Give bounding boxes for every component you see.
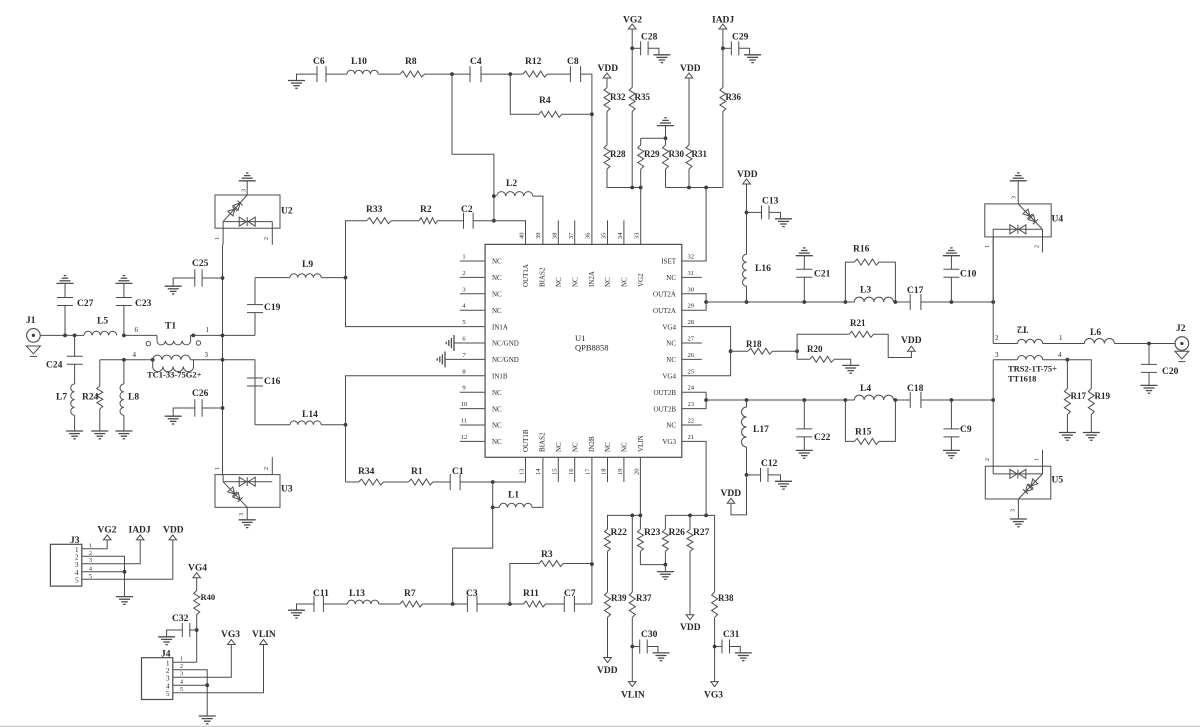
node bar2-R31 — [687, 186, 691, 190]
U5 bowtie diode — [993, 466, 1042, 474]
node C28 junction — [630, 46, 634, 50]
svg-text:J1: J1 — [26, 316, 36, 326]
svg-text:4: 4 — [1058, 351, 1062, 359]
power VDD flag J3 — [169, 535, 177, 540]
node C1-right junction — [491, 480, 495, 484]
svg-text:4: 4 — [133, 351, 137, 359]
J2 arrow — [1175, 351, 1189, 359]
svg-text:R18: R18 — [746, 339, 762, 349]
wire vertical rail U2-U3 — [222, 245, 224, 475]
svg-text:R28: R28 — [610, 149, 626, 159]
svg-text:VG3: VG3 — [662, 438, 676, 446]
IC U1 body — [485, 244, 682, 457]
TVS diode U2 box — [215, 195, 280, 228]
svg-text:32: 32 — [688, 254, 695, 261]
svg-text:R35: R35 — [635, 92, 651, 102]
wire IN1B to pin 8 — [346, 376, 486, 425]
node C27 junction — [63, 334, 67, 338]
resistor R38 — [712, 592, 718, 617]
wire VG3 pin 21 — [682, 441, 706, 515]
svg-text:J2: J2 — [1176, 324, 1186, 334]
svg-text:C28: C28 — [641, 33, 658, 43]
svg-text:11: 11 — [461, 418, 467, 425]
wire — [378, 73, 400, 75]
U5 pin 3 ground — [1017, 499, 1019, 519]
wire R39 to VDD arrow — [607, 617, 609, 657]
svg-text:C11: C11 — [313, 589, 329, 599]
U5 diagonal diodes — [1016, 471, 1045, 501]
resistor R17 — [1066, 360, 1068, 389]
inductor L5 — [84, 331, 117, 335]
svg-text:37: 37 — [568, 232, 575, 239]
wire bias bar2 — [665, 515, 714, 529]
svg-text:L4: L4 — [860, 384, 871, 394]
J1 arrow — [26, 346, 40, 354]
capacitor C16 — [254, 360, 256, 386]
resistor R29 — [640, 138, 642, 145]
svg-text:C29: C29 — [732, 33, 749, 43]
power IADJ flag J3 — [136, 535, 144, 540]
svg-text:T2: T2 — [1017, 324, 1028, 334]
svg-text:R26: R26 — [669, 528, 686, 538]
resistor R20 — [797, 351, 810, 359]
node rail-C26 — [221, 406, 225, 410]
wire J3-3 to IADJ — [82, 540, 140, 564]
node bar2-ISET — [704, 186, 708, 190]
svg-text:C2: C2 — [461, 205, 473, 215]
node L4-left junction — [844, 398, 848, 402]
svg-text:R19: R19 — [1095, 391, 1111, 401]
svg-text:IN1B: IN1B — [492, 373, 508, 381]
connector J4 body — [142, 658, 173, 700]
capacitor C2 — [463, 213, 465, 229]
node R4-right junction — [590, 112, 594, 116]
svg-text:C7: C7 — [564, 589, 576, 599]
svg-text:R34: R34 — [358, 467, 375, 477]
svg-text:13: 13 — [519, 469, 526, 476]
resistor R27 — [689, 515, 691, 529]
svg-text:21: 21 — [688, 434, 695, 441]
wire C4-node down to L2 — [452, 74, 494, 221]
svg-text:15: 15 — [552, 469, 559, 476]
svg-text:R40: R40 — [201, 592, 216, 602]
svg-text:27: 27 — [688, 336, 695, 343]
svg-text:NC: NC — [492, 422, 502, 430]
node VG4 merge — [729, 349, 733, 353]
node L3-right junction — [894, 300, 898, 304]
svg-text:NC: NC — [571, 442, 579, 452]
capacitor C30 — [632, 646, 639, 648]
wire J3-5 to VDD — [82, 540, 173, 579]
wire OUT2B bracket — [682, 392, 706, 408]
capacitor C20 — [1148, 344, 1150, 365]
svg-text:1: 1 — [462, 254, 465, 261]
capacitor C7 — [563, 596, 565, 612]
svg-text:L6: L6 — [1090, 328, 1101, 338]
svg-text:R27: R27 — [693, 528, 710, 538]
wire — [346, 481, 359, 483]
power VG2 flag J3 — [103, 535, 111, 540]
svg-text:R1: R1 — [411, 467, 423, 477]
svg-text:L3: L3 — [860, 286, 871, 296]
U3 diagonal diodes — [221, 479, 250, 509]
svg-text:T1: T1 — [165, 322, 176, 332]
svg-text:NC: NC — [492, 389, 502, 397]
svg-text:C9: C9 — [960, 425, 972, 435]
svg-text:C8: C8 — [567, 57, 579, 67]
inductor L16 — [746, 286, 748, 302]
connector J2 — [1175, 337, 1189, 351]
T1 lower loop winding — [152, 360, 154, 367]
node OUT2B merge — [704, 398, 708, 402]
node T1 pin4 — [151, 358, 155, 362]
node bar1-R35 — [630, 186, 634, 190]
svg-text:VDD: VDD — [721, 489, 742, 499]
wire IN1A to pin 5 — [346, 278, 486, 327]
svg-text:C20: C20 — [1162, 367, 1179, 377]
svg-text:VLIN: VLIN — [637, 435, 645, 452]
svg-text:20: 20 — [634, 469, 641, 476]
svg-text:ISET: ISET — [661, 258, 677, 266]
wire — [895, 399, 910, 401]
inductor L4 — [845, 399, 854, 401]
svg-text:L8: L8 — [128, 393, 139, 403]
inductor L10 — [347, 70, 378, 74]
resistor R37 rail — [631, 515, 633, 592]
U3 bowtie diode — [223, 481, 272, 483]
node L3-left junction — [844, 300, 848, 304]
resistor R4 — [510, 74, 538, 114]
svg-text:1: 1 — [215, 467, 221, 470]
svg-text:14: 14 — [535, 468, 542, 475]
node rail-pin1wire — [221, 334, 225, 338]
svg-text:3: 3 — [75, 561, 79, 569]
svg-text:IN2A: IN2A — [588, 271, 596, 287]
wire pin4 line — [100, 359, 153, 361]
wire — [481, 73, 523, 75]
wire pin1 to C19 — [193, 334, 255, 336]
wire VLIN pin 20 down — [639, 457, 641, 529]
node C10 junction — [950, 300, 954, 304]
capacitor C6 — [316, 66, 318, 82]
node T2 pin3 riser — [991, 398, 995, 402]
svg-text:L16: L16 — [755, 264, 771, 274]
svg-text:24: 24 — [688, 385, 695, 392]
node C3-left junction — [451, 602, 455, 606]
svg-text:35: 35 — [601, 233, 608, 240]
wire C2 node to OUT1A pin 40 — [494, 221, 526, 245]
svg-text:31: 31 — [688, 270, 695, 277]
svg-text:NC/GND: NC/GND — [492, 340, 519, 348]
svg-text:VDD: VDD — [680, 623, 701, 633]
svg-text:6: 6 — [135, 326, 139, 334]
svg-text:36: 36 — [584, 232, 591, 239]
capacitor C27 — [64, 306, 66, 336]
svg-text:NC: NC — [604, 277, 612, 287]
capacitor C8 — [569, 66, 571, 82]
svg-text:OUT2B: OUT2B — [653, 405, 676, 413]
wire — [473, 220, 494, 222]
inductor L14 — [255, 424, 290, 426]
U3 pin 1 wire — [222, 475, 224, 482]
svg-text:VDD: VDD — [901, 336, 922, 346]
U2 pin 1 wire — [222, 222, 224, 245]
svg-text:VG2: VG2 — [98, 526, 117, 536]
wire C7 to IN2B line — [574, 603, 592, 605]
node bar2-R27 — [688, 514, 692, 518]
svg-text:NC: NC — [666, 340, 676, 348]
wire J3-1 to VG2 — [82, 540, 107, 549]
connector J3 body — [50, 544, 81, 586]
wire — [423, 603, 468, 605]
wire down to L1 — [492, 482, 494, 507]
svg-text:VLIN: VLIN — [621, 691, 645, 701]
svg-text:R38: R38 — [718, 593, 734, 603]
svg-text:1: 1 — [1059, 334, 1063, 342]
svg-text:C3: C3 — [466, 589, 478, 599]
svg-text:5: 5 — [75, 577, 79, 585]
svg-text:IN1A: IN1A — [492, 323, 508, 331]
capacitor C21 — [803, 277, 805, 302]
node R11-left junction — [508, 602, 512, 606]
wire ISET riser — [682, 188, 706, 262]
wire R32-R28 — [606, 112, 608, 146]
capacitor C12 — [747, 474, 761, 476]
node C22 junction — [802, 398, 806, 402]
node C29 junction — [721, 46, 725, 50]
svg-text:VG4: VG4 — [662, 323, 676, 331]
svg-text:2: 2 — [462, 270, 465, 277]
svg-text:VDD: VDD — [680, 64, 701, 74]
svg-text:R31: R31 — [692, 149, 708, 159]
svg-text:C16: C16 — [264, 377, 281, 387]
U5 pin 1 stub — [1042, 450, 1044, 474]
wire R28 to bar — [607, 169, 641, 187]
node C21 junction — [802, 300, 806, 304]
node T2 pin4 — [1066, 358, 1070, 362]
wire to J2 — [1114, 343, 1175, 345]
U2 bowtie diode — [223, 221, 272, 223]
svg-text:R8: R8 — [405, 57, 417, 67]
node IN1A junction — [344, 276, 348, 280]
svg-text:NC: NC — [666, 274, 676, 282]
capacitor C9 — [950, 400, 952, 429]
wire VG2 bar to pin 33 — [640, 188, 642, 245]
resistor R30 — [665, 138, 667, 145]
wire R38 down — [714, 617, 716, 681]
svg-text:IN2B: IN2B — [588, 436, 596, 452]
node OUT2A merge — [704, 300, 708, 304]
svg-text:26: 26 — [688, 352, 695, 359]
svg-text:VG2: VG2 — [637, 273, 645, 287]
svg-text:OUT2A: OUT2A — [653, 291, 676, 299]
svg-text:VG3: VG3 — [221, 630, 240, 640]
resistor R21 — [797, 334, 849, 351]
power VDD down-arrow mid — [686, 615, 694, 620]
capacitor C22 — [803, 400, 805, 429]
svg-text:C31: C31 — [723, 630, 740, 640]
wire bar2 right to R38 — [714, 529, 716, 592]
node R29/R30 top junction — [664, 136, 668, 140]
svg-text:R16: R16 — [853, 245, 870, 255]
svg-text:NC: NC — [621, 442, 629, 452]
node C24 junction — [73, 334, 77, 338]
node J3 ground junction — [123, 570, 127, 574]
inductor L1 — [493, 506, 500, 508]
capacitor C1 — [449, 474, 451, 490]
node C30 junction — [630, 645, 634, 649]
svg-text:NC: NC — [555, 277, 563, 287]
svg-text:C23: C23 — [135, 299, 152, 309]
TVS diode U3 box — [215, 475, 280, 508]
node rail-pin3wire — [221, 358, 225, 362]
svg-text:L1: L1 — [508, 491, 519, 501]
svg-text:U2: U2 — [281, 207, 293, 217]
wire — [773, 350, 798, 352]
svg-text:3: 3 — [239, 513, 245, 516]
node J4 ground junction — [205, 683, 209, 687]
svg-text:VG4: VG4 — [662, 373, 676, 381]
svg-text:10: 10 — [461, 401, 468, 408]
svg-text:3: 3 — [166, 674, 170, 682]
svg-text:C13: C13 — [762, 197, 779, 207]
svg-text:22: 22 — [688, 418, 695, 425]
wire L2 to BIAS2 pin 39 — [533, 196, 543, 244]
T1 phase dot left — [146, 341, 150, 345]
inductor L6 — [1084, 339, 1114, 344]
svg-text:VDD: VDD — [597, 666, 618, 676]
capacitor C4 — [469, 66, 471, 82]
node L1 junction — [491, 506, 495, 510]
inductor L9 — [255, 277, 290, 279]
wire R36 to bar — [722, 112, 724, 188]
wire — [391, 220, 419, 222]
capacitor C17 — [909, 294, 911, 310]
transformer T1 bottom winding — [153, 355, 191, 360]
svg-text:3: 3 — [1011, 509, 1017, 512]
wire L1 node down to C3 node — [453, 507, 493, 604]
svg-text:R15: R15 — [855, 428, 872, 438]
wire — [731, 350, 748, 352]
wire top bar R29-R30 — [641, 137, 666, 139]
svg-text:QPB8858: QPB8858 — [575, 343, 609, 353]
wire R35 to bar — [631, 112, 633, 188]
resistor R3 — [510, 564, 539, 605]
resistor R28 — [604, 145, 610, 169]
U4 ground — [1017, 181, 1019, 204]
wire J3-4 — [82, 571, 125, 573]
inductor L17 — [746, 400, 748, 407]
svg-text:TC1-33-75G2+: TC1-33-75G2+ — [147, 370, 202, 380]
U4 pin 1 wire — [992, 229, 994, 302]
svg-text:39: 39 — [535, 233, 542, 240]
svg-text:NC: NC — [621, 277, 629, 287]
wire IN2B pin 17 down — [591, 457, 593, 604]
wire to OUT1B pin 13 — [493, 457, 526, 482]
svg-text:R21: R21 — [850, 318, 866, 328]
capacitor C19 — [254, 313, 256, 336]
inductor L2 — [497, 192, 533, 197]
svg-text:VDD: VDD — [598, 64, 619, 74]
wire — [124, 334, 157, 336]
svg-text:25: 25 — [688, 368, 695, 375]
U4 bowtie diode — [993, 228, 1042, 230]
wire OUT2A bracket — [682, 294, 706, 310]
svg-text:U3: U3 — [281, 485, 293, 495]
capacitor C31 — [715, 646, 722, 648]
svg-text:3: 3 — [205, 351, 209, 359]
transformer T2 top winding — [993, 343, 1017, 345]
svg-text:L13: L13 — [349, 589, 365, 599]
svg-text:BIAS2: BIAS2 — [539, 432, 547, 452]
U3 pin 3 ground — [246, 507, 248, 520]
wire R23 to ground node — [640, 551, 665, 564]
capacitor C29 — [723, 47, 731, 49]
svg-text:R17: R17 — [1071, 391, 1087, 401]
wire — [921, 301, 993, 303]
svg-text:BIAS2: BIAS2 — [539, 267, 547, 287]
ground mid (R29/R30 top) — [657, 125, 674, 127]
svg-text:34: 34 — [617, 232, 624, 239]
resistor R36 — [720, 87, 726, 111]
resistor R7 — [400, 601, 422, 607]
wire R40 to C32 node — [196, 615, 198, 663]
svg-text:OUT1A: OUT1A — [522, 264, 530, 287]
power VLIN flag J4 — [260, 640, 268, 645]
wire — [433, 481, 450, 483]
svg-text:R12: R12 — [525, 57, 542, 67]
resistor R24 — [99, 360, 101, 386]
capacitor C18 — [909, 392, 911, 408]
svg-text:R23: R23 — [644, 528, 661, 538]
svg-text:3: 3 — [1012, 196, 1018, 199]
svg-text:2: 2 — [995, 334, 999, 342]
node L16 junction — [745, 300, 749, 304]
svg-text:2: 2 — [264, 467, 270, 470]
node R18-right junction — [795, 349, 799, 353]
svg-text:R36: R36 — [726, 92, 742, 102]
svg-text:NC: NC — [555, 442, 563, 452]
capacitor C28 — [632, 47, 640, 49]
svg-text:3: 3 — [242, 189, 248, 192]
wire J4-5 to VLIN — [173, 645, 264, 693]
power VG3 flag J4 — [228, 640, 236, 645]
svg-text:C22: C22 — [814, 433, 831, 443]
svg-text:OUT2B: OUT2B — [653, 389, 676, 397]
svg-text:5: 5 — [462, 319, 465, 326]
resistor R32 — [604, 87, 610, 111]
svg-text:R39: R39 — [611, 593, 627, 603]
resistor R31 — [686, 145, 692, 169]
node bar1-VLIN — [639, 514, 643, 518]
U2 ground — [246, 181, 248, 195]
svg-text:NC: NC — [492, 438, 502, 446]
resistor R19 — [1067, 360, 1091, 389]
ground J3 — [116, 596, 133, 598]
capacitor C11 — [313, 596, 315, 612]
node L17 junction — [745, 398, 749, 402]
svg-text:R22: R22 — [611, 528, 628, 538]
wire T2 pin3 rail — [992, 360, 994, 467]
node C9 junction — [950, 398, 954, 402]
node IN1B junction — [344, 423, 348, 427]
resistor R8 — [400, 71, 425, 77]
svg-text:R32: R32 — [610, 92, 626, 102]
transformer T1 top winding — [156, 335, 158, 340]
wire J4-3 to VG3 — [173, 645, 232, 678]
svg-text:18: 18 — [601, 469, 608, 476]
svg-text:C25: C25 — [192, 259, 209, 269]
